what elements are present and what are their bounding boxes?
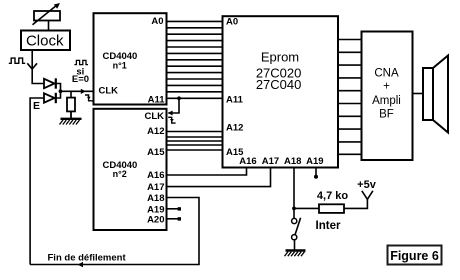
svg-text:A12: A12 (147, 126, 164, 137)
wire A15 (167, 149, 223, 151)
diode D2 (E gate) (44, 93, 56, 103)
wire bus A10 (167, 84, 223, 86)
wire A14b (167, 144, 223, 146)
diode D1 (clock gate) (44, 78, 56, 88)
svg-text:CLK: CLK (144, 111, 164, 122)
svg-text:A20: A20 (147, 214, 164, 225)
wire A14 (167, 140, 223, 142)
svg-text:A0: A0 (226, 17, 238, 28)
wire data D8 (338, 141, 362, 143)
svg-text:Figure 6: Figure 6 (390, 249, 439, 263)
wire bus A8 (167, 72, 223, 74)
wire A17 (167, 168, 271, 187)
Clock box (21, 31, 70, 51)
node junction dot (59, 89, 63, 93)
wire resistor to +5v (344, 199, 367, 208)
svg-text:n°1: n°1 (113, 60, 127, 70)
svg-text:A11: A11 (148, 94, 166, 105)
Eprom box (223, 16, 339, 167)
svg-text:27C040: 27C040 (256, 77, 302, 92)
arrowhead left on feedback wire (78, 262, 84, 267)
svg-text:A18: A18 (147, 193, 164, 204)
svg-text:Eprom: Eprom (261, 49, 299, 64)
resistor R1 to ground (67, 91, 75, 118)
wire data D3 (338, 77, 362, 79)
wire bus A10b (167, 91, 223, 93)
wire data D0 (338, 39, 362, 41)
svg-text:Inter: Inter (316, 220, 341, 232)
wire A16 (167, 168, 247, 176)
svg-text:A16: A16 (147, 170, 164, 181)
Figure 6 box (388, 246, 442, 265)
switch Inter (292, 218, 301, 240)
wire A11 to CLK2 (168, 98, 179, 113)
wire data D9 (338, 153, 362, 155)
svg-text:E: E (33, 100, 40, 112)
wire trimmer to Clock (48, 21, 50, 31)
svg-text:A19: A19 (306, 156, 323, 167)
svg-text:Fin de défilement: Fin de défilement (48, 252, 127, 263)
wire data D7 (338, 128, 362, 130)
ground under switch (285, 251, 306, 257)
wire bus A1 (167, 27, 223, 29)
wire data D6 (338, 115, 362, 117)
wire A19 stub (167, 208, 179, 210)
wire A12 (167, 131, 223, 133)
resistor R2 4,7 ko (319, 204, 344, 213)
wire pullup node to resistor (294, 207, 319, 209)
square wave glyph left of clock wire (9, 58, 25, 63)
wire A13 (167, 136, 223, 138)
CD4040 n2 box (94, 109, 167, 230)
junction dot on A11 (177, 96, 181, 100)
falling edge glyph at CLK2 (168, 117, 175, 123)
wire A18 fin de defilement feedback (30, 198, 199, 265)
svg-text:Clock: Clock (26, 32, 64, 49)
A19 stub square dot (178, 207, 181, 210)
wire bus A2 (167, 33, 223, 35)
arrowhead right on CLK wire (81, 89, 86, 94)
variable resistor (trimmer) above Clock (33, 3, 61, 25)
wire bus A11 (167, 97, 223, 99)
wire bus A6 (167, 59, 223, 61)
wire data D4 (338, 90, 362, 92)
wire bus A9 (167, 78, 223, 80)
svg-text:+5v: +5v (357, 179, 377, 191)
svg-text:BF: BF (379, 109, 394, 121)
wire data D1 (338, 51, 362, 53)
arrowhead into CLK2 (168, 111, 173, 116)
wire A18 eprom pin down to pullup node (293, 168, 295, 209)
svg-text:A17: A17 (262, 156, 279, 167)
wire diode outputs join (56, 84, 61, 99)
wire Clock output down (32, 50, 43, 84)
svg-text:+: + (383, 81, 390, 93)
svg-text:4,7 ko: 4,7 ko (317, 190, 348, 202)
svg-text:A15: A15 (147, 147, 165, 158)
svg-text:A0: A0 (151, 16, 163, 27)
ground under R1 (60, 119, 82, 125)
svg-text:A11: A11 (226, 94, 244, 105)
square wave glyph above si E=0 (74, 60, 88, 64)
CD4040 n1 box (94, 13, 167, 104)
svg-text:Ampli: Ampli (372, 95, 401, 107)
svg-text:n°2: n°2 (113, 169, 127, 179)
svg-text:CNA: CNA (374, 68, 399, 80)
wire data D2 (338, 64, 362, 66)
+5v supply arrow (362, 191, 373, 200)
svg-text:E=0: E=0 (72, 74, 89, 85)
wire switch to ground (294, 240, 296, 250)
wire bus A7 (167, 65, 223, 67)
svg-text:A16: A16 (239, 156, 256, 167)
junction dot pullup node (292, 207, 296, 211)
wire node to switch (293, 208, 295, 218)
falling edge glyph at CLK1 (85, 95, 93, 101)
wire bus A0 (167, 20, 223, 22)
wire CNA to speaker (413, 93, 424, 95)
svg-text:A12: A12 (226, 122, 243, 133)
arrowhead down on clock wire (27, 63, 37, 69)
wire bus A3 (167, 40, 223, 42)
wire node to CLK of CD4040 n1 (61, 90, 94, 92)
svg-text:A17: A17 (147, 182, 164, 193)
wire data D5 (338, 103, 362, 105)
wire bus A5 (167, 52, 223, 54)
svg-text:CLK: CLK (99, 86, 119, 97)
CNA Ampli BF box (362, 32, 413, 161)
wire bus A4 (167, 46, 223, 48)
wire A19 eprom stub with dot (314, 168, 318, 179)
svg-text:A18: A18 (284, 156, 301, 167)
A20 stub square dot (178, 217, 181, 220)
speaker (423, 56, 448, 133)
wire A20 stub (167, 218, 179, 220)
wire E input from feedback line (30, 98, 43, 265)
